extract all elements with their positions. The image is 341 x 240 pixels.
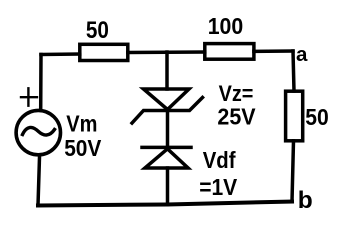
svg-text:=1V: =1V — [199, 174, 237, 200]
wire diode to bottom — [166, 168, 170, 205]
svg-text:Vm: Vm — [66, 110, 97, 136]
value label 100 — [208, 13, 244, 39]
value label 50 (top left resistor) — [86, 17, 109, 44]
diode label Vdf — [203, 147, 236, 173]
resistor 50 (top left) — [80, 44, 128, 60]
ac source Vm — [16, 110, 60, 154]
svg-text:Vz=: Vz= — [219, 81, 254, 106]
svg-text:100: 100 — [208, 13, 244, 39]
zener value label 25V — [217, 104, 256, 130]
source value label 50V — [64, 135, 102, 161]
value label 50 (load resistor) — [305, 104, 329, 130]
wire bottom — [38, 202, 292, 206]
zener diode Vz — [132, 89, 203, 123]
wire middle stub top — [165, 52, 169, 89]
svg-text:50: 50 — [86, 17, 109, 44]
wire node a down to load resistor — [293, 51, 294, 91]
node b — [298, 187, 313, 214]
svg-text:25V: 25V — [217, 104, 256, 130]
svg-text:Vdf: Vdf — [203, 147, 236, 173]
zener label Vz= — [219, 81, 254, 106]
svg-text:50: 50 — [305, 104, 329, 130]
wire left vertical top — [39, 55, 43, 109]
diode value label =1V — [199, 174, 237, 200]
resistor 100 — [205, 44, 254, 60]
svg-text:a: a — [296, 43, 308, 66]
node a — [296, 43, 308, 66]
wire top left segment — [41, 52, 80, 56]
svg-text:b: b — [298, 187, 313, 214]
wire load resistor to node b — [292, 141, 294, 202]
resistor 50 (load) — [286, 91, 303, 141]
wire resistor 100 to node a — [254, 49, 293, 53]
plus sign — [21, 88, 37, 105]
diode Vdf — [142, 147, 191, 168]
wire between resistors — [128, 50, 205, 54]
source label Vm — [66, 110, 97, 136]
svg-text:50V: 50V — [64, 135, 102, 161]
wire left vertical bottom — [38, 157, 40, 206]
wire zener to diode — [166, 111, 170, 148]
